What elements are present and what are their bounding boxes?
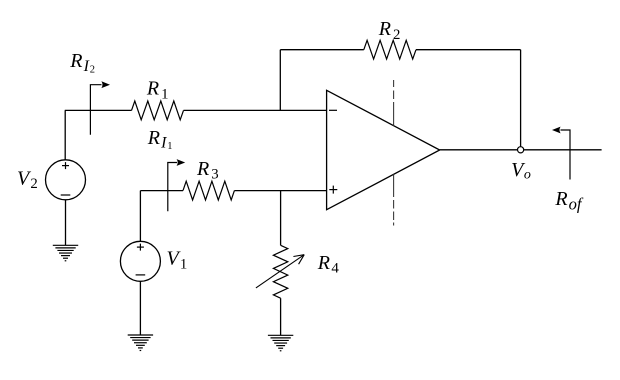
current arrow Rof (pointing left) [552,127,570,180]
label R2 [378,18,401,43]
wire output right segment [524,149,602,151]
label Rof [554,188,583,214]
wire feedback top rail left segment [280,49,364,51]
svg-text:R1: R1 [146,78,169,103]
wire non-inverting rail left segment [140,190,183,192]
wire R4 bottom lead [280,298,282,335]
svg-text:RI1: RI1 [147,127,173,152]
current arrow RI1 [168,159,185,211]
label V1 [167,248,188,273]
resistor R1 [132,101,184,120]
current arrow RI2 [90,81,110,135]
svg-text:V1: V1 [167,248,188,273]
ground for R4 [268,335,293,350]
op-amp axis dash line top [393,80,395,126]
label RI1 [147,127,173,152]
label V2 [17,167,38,192]
svg-text:V2: V2 [17,167,38,192]
ground for V2 [53,245,78,260]
label Vo [511,159,531,183]
wire V2 bottom lead [65,200,67,246]
wire R4 top lead [280,191,282,246]
arrow through R4 [256,255,304,288]
wire V1 top lead [139,191,141,242]
label R3 [196,158,219,183]
wire inverting-input rail left segment [65,109,132,111]
source V1 [120,241,160,281]
label RI2 [69,50,95,75]
resistor R4 (variable, vertical) [273,245,287,298]
label R1 [146,78,169,103]
resistor R2 [364,40,416,59]
svg-text:R3: R3 [196,158,219,183]
svg-text:Rof: Rof [554,188,583,214]
wire feedback top rail right segment [416,49,521,51]
wire non-inverting rail right segment [234,190,326,192]
label R4 [317,252,340,277]
ground for V1 [128,335,153,350]
wire feedback tap vertical (inverting node to top rail) [279,50,281,111]
wire V1 bottom lead [139,281,141,335]
wire op-amp output to node [440,149,518,151]
resistor R3 [183,181,234,200]
op-amp U1 [327,90,440,209]
svg-text:Vo: Vo [511,159,531,183]
wire feedback right vertical down to output node [520,50,522,147]
wire inverting-input rail right segment [184,109,327,111]
node Vo (open circle) [518,147,524,153]
op-amp axis dash line bottom [393,174,395,225]
svg-text:R2: R2 [378,18,401,43]
svg-text:RI2: RI2 [69,50,95,75]
svg-text:R4: R4 [317,252,340,277]
wire V2 top lead [64,110,66,159]
source V2 [46,160,86,200]
